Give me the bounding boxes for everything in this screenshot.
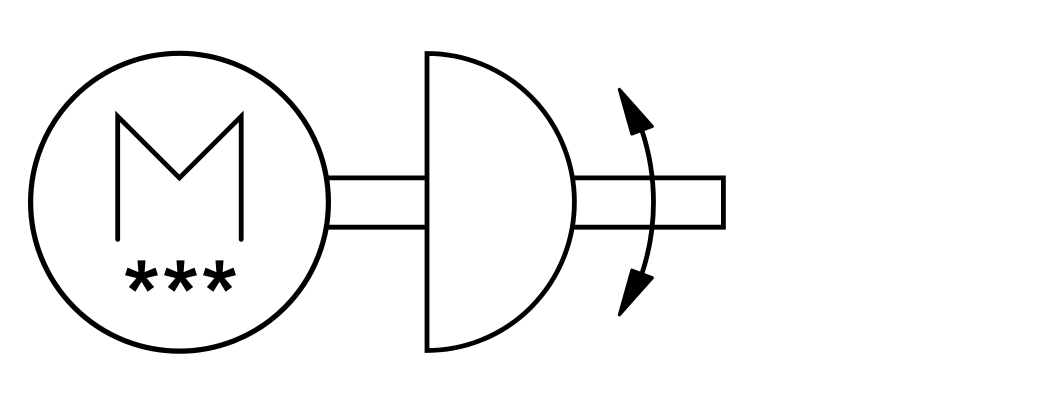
rotation arrowhead top: [619, 89, 652, 134]
wire: upper shaft line between motor and actuator: [326, 175, 427, 180]
value label: asterisk 2: [164, 260, 197, 291]
motor M1 circle body: [31, 53, 329, 351]
motor letter M: [118, 116, 242, 239]
value label: asterisk 3: [203, 260, 236, 291]
rotation arrow arc: [642, 131, 653, 274]
rotation arrowhead bottom: [619, 270, 652, 315]
value label: asterisk 1: [125, 260, 158, 291]
wire: lower shaft line between motor and actuator: [326, 225, 427, 230]
output shaft rectangle (top, right cap, bottom): [573, 178, 724, 227]
semi-rotary actuator body (half circle): [427, 54, 574, 351]
